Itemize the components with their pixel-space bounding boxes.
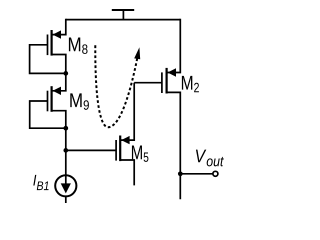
wire bias to M5 gate	[66, 149, 116, 151]
node Vout	[178, 171, 183, 176]
transistor M2	[162, 19, 180, 200]
label Vout	[196, 150, 224, 167]
wire M8 gate loop	[30, 45, 65, 74]
node M9 drain junction	[63, 126, 68, 131]
wire top rail	[66, 19, 181, 21]
transistor M9	[48, 73, 66, 128]
terminal Vout open circle	[213, 171, 218, 176]
label M5	[132, 145, 148, 161]
transistor M5	[116, 83, 134, 186]
wire M5 drain to M2 gate	[134, 82, 162, 84]
label M2	[182, 76, 199, 92]
node M8 drain junction	[63, 71, 68, 76]
signal path dashed arrow	[95, 45, 140, 127]
VDD rail bar	[112, 9, 134, 11]
transistor M8	[48, 19, 66, 74]
label M8	[69, 37, 88, 53]
current source IB1	[55, 175, 76, 203]
wire Vout tap	[180, 173, 213, 175]
label M9	[70, 93, 89, 109]
node bias tap	[63, 148, 68, 153]
wire left branch down	[65, 128, 67, 175]
VDD stub wire	[122, 10, 124, 20]
label IB1	[33, 175, 48, 190]
wire M9 gate loop	[30, 101, 65, 128]
